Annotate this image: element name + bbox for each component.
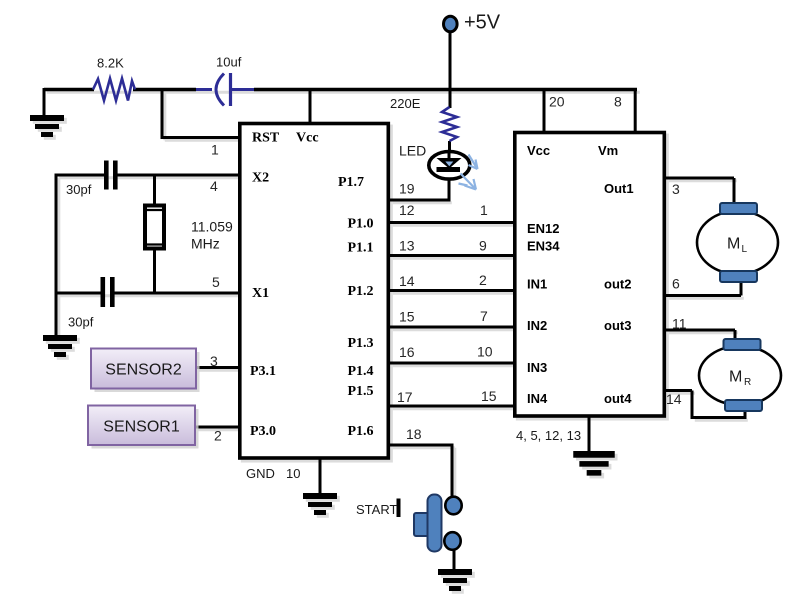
- svg-text:Vm: Vm: [598, 143, 618, 158]
- svg-text:13: 13: [399, 238, 415, 254]
- svg-text:11.059: 11.059: [191, 219, 233, 235]
- svg-text:L: L: [742, 244, 748, 255]
- svg-text:P1.2: P1.2: [348, 284, 374, 299]
- svg-text:M: M: [729, 369, 742, 386]
- svg-text:P1.6: P1.6: [348, 424, 374, 439]
- svg-text:1: 1: [211, 142, 219, 158]
- svg-text:4: 4: [210, 178, 218, 194]
- svg-text:14: 14: [666, 391, 682, 407]
- svg-text:16: 16: [399, 344, 415, 360]
- svg-text:LED: LED: [399, 143, 426, 159]
- svg-text:START: START: [356, 502, 397, 517]
- svg-text:EN12: EN12: [527, 221, 560, 236]
- svg-text:4, 5, 12, 13: 4, 5, 12, 13: [516, 428, 581, 443]
- svg-text:Out1: Out1: [604, 181, 634, 196]
- svg-text:220E: 220E: [390, 96, 421, 111]
- svg-text:M: M: [727, 236, 740, 253]
- svg-text:30pf: 30pf: [68, 315, 94, 330]
- svg-text:9: 9: [479, 238, 487, 254]
- svg-text:IN1: IN1: [527, 277, 547, 292]
- svg-text:1: 1: [480, 202, 488, 218]
- svg-text:X1: X1: [252, 286, 269, 301]
- svg-text:15: 15: [399, 309, 415, 325]
- svg-text:7: 7: [480, 308, 488, 324]
- svg-text:14: 14: [399, 273, 415, 289]
- svg-text:out3: out3: [604, 318, 631, 333]
- svg-text:GND: GND: [246, 466, 275, 481]
- svg-text:EN34: EN34: [527, 239, 560, 254]
- svg-text:10: 10: [477, 344, 493, 360]
- svg-text:out2: out2: [604, 277, 631, 292]
- svg-text:12: 12: [399, 202, 415, 218]
- svg-text:SENSOR2: SENSOR2: [105, 362, 182, 379]
- svg-text:+5V: +5V: [464, 12, 501, 34]
- svg-text:Vcc: Vcc: [527, 143, 550, 158]
- svg-text:15: 15: [481, 388, 497, 404]
- svg-text:RST: RST: [252, 131, 280, 146]
- svg-text:19: 19: [399, 181, 415, 197]
- svg-text:2: 2: [479, 272, 487, 288]
- svg-text:Vcc: Vcc: [296, 131, 319, 146]
- svg-text:11: 11: [672, 316, 687, 332]
- svg-text:30pf: 30pf: [66, 182, 92, 197]
- svg-text:MHz: MHz: [191, 236, 220, 252]
- svg-text:R: R: [744, 377, 751, 388]
- svg-text:P3.1: P3.1: [250, 364, 276, 379]
- svg-text:8: 8: [614, 94, 622, 110]
- svg-text:8.2K: 8.2K: [97, 56, 124, 71]
- svg-text:P3.0: P3.0: [250, 424, 276, 439]
- svg-text:18: 18: [406, 426, 422, 442]
- svg-text:IN4: IN4: [527, 391, 548, 406]
- svg-text:SENSOR1: SENSOR1: [103, 419, 180, 436]
- svg-text:17: 17: [397, 389, 413, 405]
- svg-text:6: 6: [672, 276, 680, 292]
- svg-text:20: 20: [549, 94, 565, 110]
- svg-text:P1.4: P1.4: [348, 364, 374, 379]
- svg-text:P1.7: P1.7: [338, 175, 364, 190]
- svg-text:X2: X2: [252, 171, 269, 186]
- svg-text:P1.5: P1.5: [348, 384, 374, 399]
- svg-text:3: 3: [210, 353, 218, 369]
- svg-text:P1.0: P1.0: [348, 217, 374, 232]
- svg-text:IN2: IN2: [527, 318, 547, 333]
- svg-text:out4: out4: [604, 391, 632, 406]
- svg-text:10: 10: [286, 466, 300, 481]
- svg-text:IN3: IN3: [527, 360, 547, 375]
- svg-text:2: 2: [214, 428, 222, 444]
- svg-text:3: 3: [672, 181, 680, 197]
- svg-text:5: 5: [212, 274, 220, 290]
- svg-text:P1.3: P1.3: [348, 336, 374, 351]
- svg-text:10uf: 10uf: [216, 55, 242, 70]
- svg-text:P1.1: P1.1: [348, 241, 374, 256]
